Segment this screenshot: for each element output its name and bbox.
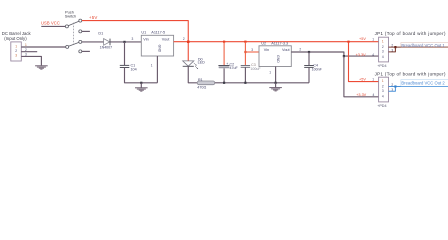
LED D0: [183, 57, 205, 69]
svg-text:A1117-5: A1117-5: [151, 31, 165, 35]
net flag outline Breadboard VCC Out 1: [401, 43, 448, 48]
wire jack pin3 to ground: [21, 56, 41, 65]
svg-text:+PD4: +PD4: [377, 104, 386, 108]
wire C3 to ground rail: [244, 67, 246, 83]
JP1b output wire pin 2: [389, 86, 448, 88]
junction C2 / ground rail: [223, 82, 225, 84]
ground (U2): [269, 88, 282, 91]
svg-text:Vin: Vin: [264, 48, 269, 52]
wire +3.3V down to JP1b pin4: [344, 56, 379, 97]
wire R1 to right ground rail: [215, 82, 224, 84]
JP1a output wire pin 2: [389, 46, 448, 48]
junction U2 Vin branch: [244, 51, 246, 53]
switch throw 1b: [79, 30, 82, 33]
svg-text:GND: GND: [276, 55, 280, 63]
switch lever 2: [69, 42, 79, 46]
svg-text:4: 4: [382, 95, 384, 99]
switch pole 2: [66, 45, 69, 48]
svg-text:470Ω: 470Ω: [197, 86, 206, 90]
svg-text:Vout: Vout: [162, 37, 171, 41]
svg-text:D1: D1: [98, 31, 103, 35]
diode D1: [98, 31, 112, 49]
svg-text:2: 2: [382, 85, 384, 89]
svg-text:GND: GND: [158, 45, 162, 53]
ground (U1): [135, 88, 148, 91]
wire junction down to C1: [124, 42, 126, 65]
svg-text:LED: LED: [198, 61, 206, 65]
svg-text:Breadboard VCC Out 2: Breadboard VCC Out 2: [401, 81, 445, 86]
svg-text:USB VCC: USB VCC: [41, 20, 60, 25]
svg-text:JP1 (Top of board with jumper): JP1 (Top of board with jumper): [375, 31, 446, 36]
svg-text:3: 3: [251, 48, 253, 52]
wire +5V down to JP1b pin1: [349, 42, 379, 82]
switch throw 2a: [79, 40, 82, 43]
wire D1 to U1 Vin: [110, 41, 141, 43]
wire +5V from switch, corner down to LED column: [82, 21, 188, 61]
switch S1 label: [65, 9, 76, 18]
capacitor C3: [241, 63, 262, 71]
junction C3 / ground rail: [244, 82, 246, 84]
svg-text:+3.3V: +3.3V: [356, 53, 366, 57]
svg-text:+PD4: +PD4: [377, 64, 386, 68]
capacitor C2 (polarized): [218, 62, 238, 70]
svg-text:U1: U1: [141, 31, 146, 35]
switch mechanical link (dashed): [73, 23, 75, 45]
wire LED cathode to R1: [188, 66, 197, 83]
stub wire throw 2b: [82, 50, 90, 52]
junction +5V / LED column: [187, 41, 190, 44]
wire C4 top lead: [308, 52, 310, 65]
DC barrel jack label: [2, 31, 32, 41]
svg-text:1: 1: [372, 38, 374, 42]
svg-text:+3.3V: +3.3V: [356, 93, 366, 97]
JP1b jumper wire pin3 to pin2: [389, 87, 396, 92]
switch throw 2b: [79, 50, 82, 53]
svg-text:Switch: Switch: [65, 13, 76, 18]
svg-text:+5V: +5V: [359, 37, 366, 41]
wire C4 to ground rail: [308, 67, 310, 82]
svg-text:3: 3: [382, 89, 384, 93]
junction (D1 / C1): [123, 41, 125, 43]
svg-text:Vin: Vin: [143, 37, 148, 41]
svg-text:1: 1: [15, 44, 17, 48]
svg-text:2: 2: [382, 45, 384, 49]
svg-text:2: 2: [15, 49, 17, 53]
wire ground stub: [140, 83, 142, 88]
svg-text:1: 1: [382, 39, 384, 43]
svg-text:4: 4: [372, 53, 374, 57]
wire USB VCC to switch pole: [41, 25, 65, 27]
capacitor C1: [120, 63, 137, 71]
switch lever 1: [68, 21, 79, 26]
wire switch throw 2a to D1: [82, 41, 104, 43]
wire ground stub (right): [275, 83, 277, 88]
svg-text:3: 3: [382, 50, 384, 54]
junction JP1b jumper: [394, 85, 396, 87]
svg-text:+5V: +5V: [359, 77, 366, 81]
ground (jack): [35, 66, 48, 69]
wire C1 to left ground rail: [125, 68, 158, 83]
wire jack pin2 stub: [21, 51, 37, 53]
JP1a jumper wire pin3 to pin2: [389, 47, 396, 52]
svg-text:104: 104: [131, 67, 137, 71]
svg-text:U2: U2: [261, 41, 266, 45]
svg-text:3: 3: [15, 54, 17, 58]
svg-text:1: 1: [151, 63, 153, 67]
svg-text:2: 2: [299, 48, 301, 52]
svg-text:+: +: [226, 62, 228, 66]
junction +5V / U2 branch: [244, 41, 246, 43]
svg-text:JP1 (Top of board with jumper): JP1 (Top of board with jumper): [375, 72, 446, 77]
wire C2 lead from +5V rail: [223, 42, 225, 66]
right ground rail: [224, 82, 309, 84]
regulator U1: [132, 31, 185, 68]
net label USB VCC: [41, 20, 60, 25]
svg-text:+5V: +5V: [89, 15, 98, 20]
junction JP1a jumper: [394, 46, 396, 48]
svg-text:1: 1: [372, 78, 374, 82]
svg-text:A1117-3.3: A1117-3.3: [271, 41, 288, 45]
svg-text:1: 1: [269, 71, 271, 75]
junction +3.3V / C4: [308, 51, 310, 53]
svg-text:Vout: Vout: [282, 48, 291, 52]
junction +5V / JP1b branch: [347, 41, 349, 43]
svg-text:47uF: 47uF: [230, 66, 239, 70]
svg-text:100uF: 100uF: [250, 67, 261, 71]
+3.3V wire U2 Vout to JP1a pin4: [291, 52, 378, 56]
connector JP1b body: [379, 77, 389, 102]
net flag outline Breadboard VCC Out 2: [401, 80, 448, 87]
junction +3.3V branch down: [343, 55, 345, 57]
junction +5V / C2: [223, 41, 225, 43]
svg-text:DC Barrel Jack: DC Barrel Jack: [2, 31, 32, 36]
svg-text:100nF: 100nF: [312, 68, 323, 72]
capacitor C4: [304, 63, 322, 71]
svg-text:R1: R1: [198, 78, 203, 82]
wire C2 to ground rail: [223, 68, 225, 82]
switch pole 1: [65, 25, 68, 28]
svg-text:3: 3: [132, 37, 134, 41]
wire U2 GND down: [275, 67, 277, 83]
svg-text:4: 4: [373, 93, 375, 97]
svg-text:2: 2: [183, 37, 185, 41]
svg-text:1N4007: 1N4007: [100, 46, 113, 50]
switch throw 1a: [79, 19, 82, 22]
wire U2 branch from +5V rail: [244, 42, 246, 65]
stub wire throw 1b: [82, 30, 90, 32]
junction (left ground rail): [140, 82, 142, 84]
+5V rail (U1 out to JP1a pin1): [174, 41, 379, 43]
DC barrel jack J1 body: [11, 42, 21, 61]
wire to U2 Vin: [245, 51, 259, 53]
regulator U2: [251, 41, 301, 74]
svg-text:(Input Only): (Input Only): [4, 36, 27, 41]
svg-text:1: 1: [382, 79, 384, 83]
resistor R1: [197, 78, 215, 90]
svg-text:4: 4: [382, 55, 384, 59]
connector JP1a body: [379, 37, 389, 62]
wire jack pin1 to switch pole 2: [21, 46, 65, 48]
wire U1 GND down: [156, 56, 158, 83]
svg-text:Breadboard VCC Out 1: Breadboard VCC Out 1: [401, 43, 445, 48]
junction U2 GND / rail: [275, 82, 277, 84]
